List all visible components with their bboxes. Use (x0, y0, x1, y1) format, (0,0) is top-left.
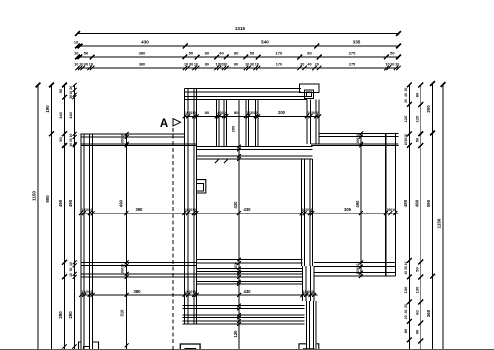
right dimension column 200/590/360 (426, 81, 435, 350)
svg-text:20: 20 (404, 88, 408, 92)
top-left exterior wall (81, 134, 197, 146)
svg-text:140: 140 (68, 111, 73, 118)
central wall below porch (197, 147, 313, 160)
svg-text:20: 20 (404, 99, 408, 103)
svg-text:10: 10 (404, 134, 408, 138)
svg-text:20: 20 (404, 315, 408, 319)
right dimension column 1150 (437, 82, 446, 350)
interior dimension row lower rooms (79, 289, 317, 297)
svg-text:10: 10 (245, 63, 249, 67)
svg-text:103010: 103010 (356, 134, 360, 145)
right dimension column 20/40/20/120/10/30/10/480/10/30/10/130/20/40/20/80 (403, 83, 412, 350)
interior dimension row upper rooms (79, 207, 399, 215)
svg-text:30: 30 (69, 138, 73, 142)
svg-text:130: 130 (403, 286, 408, 293)
svg-text:275: 275 (349, 51, 356, 56)
corridor top wall (197, 274, 303, 284)
svg-text:102010: 102010 (81, 290, 92, 294)
pier footing bottom-right (299, 344, 319, 350)
svg-text:50: 50 (414, 267, 419, 272)
svg-text:103010: 103010 (307, 111, 318, 115)
right dimension column 80/120/50/490/50/130/60/90 (414, 83, 423, 350)
svg-text:490: 490 (58, 199, 63, 207)
svg-text:20: 20 (300, 63, 304, 67)
svg-text:1030: 1030 (234, 262, 238, 270)
bottom scan edge line (0, 348, 494, 350)
pier footing bottom-middle (180, 344, 200, 350)
svg-text:280: 280 (58, 311, 63, 319)
svg-text:50: 50 (189, 51, 194, 56)
svg-text:103010: 103010 (185, 208, 196, 212)
svg-text:60: 60 (414, 310, 419, 315)
porch right wall vertical (307, 100, 319, 144)
svg-text:490: 490 (414, 199, 419, 207)
top-right exterior wall (311, 133, 399, 145)
svg-text:103010: 103010 (185, 111, 196, 115)
svg-text:1150: 1150 (32, 191, 37, 201)
svg-text:120: 120 (403, 115, 408, 122)
pier footing bottom-left (79, 342, 99, 350)
svg-text:10: 10 (74, 63, 78, 67)
left dimension column 1150 (32, 83, 41, 350)
svg-text:305: 305 (344, 207, 352, 212)
svg-text:200: 200 (231, 125, 236, 132)
svg-text:390: 390 (136, 207, 144, 212)
svg-text:10: 10 (255, 63, 259, 67)
svg-text:20: 20 (69, 86, 73, 90)
svg-text:170: 170 (276, 51, 283, 56)
svg-text:430: 430 (244, 207, 252, 212)
svg-text:30: 30 (84, 63, 88, 67)
svg-text:490: 490 (68, 199, 73, 207)
svg-text:40: 40 (404, 93, 408, 97)
svg-text:103010: 103010 (185, 290, 196, 294)
section marker A (160, 118, 181, 130)
svg-text:275: 275 (349, 63, 355, 67)
svg-text:380: 380 (134, 289, 142, 294)
svg-text:50: 50 (390, 51, 395, 56)
svg-text:380: 380 (139, 51, 146, 56)
svg-text:103010: 103010 (121, 134, 125, 145)
svg-text:335: 335 (353, 40, 361, 45)
svg-text:50: 50 (58, 137, 63, 142)
tick cluster below central wall (215, 159, 228, 163)
svg-text:200: 200 (278, 110, 286, 115)
porch pier 1 (217, 100, 227, 147)
porch chimney block (300, 84, 319, 99)
dimension row fine 10/10/30/10/380/... (74, 63, 401, 71)
svg-text:50: 50 (84, 51, 89, 56)
svg-text:104010: 104010 (303, 290, 314, 294)
corridor bottom wall band (182, 306, 304, 324)
svg-text:1315: 1315 (235, 26, 246, 31)
svg-text:102010: 102010 (216, 111, 227, 115)
svg-text:30: 30 (404, 266, 408, 270)
svg-text:80: 80 (307, 51, 312, 56)
svg-text:430: 430 (233, 201, 238, 209)
svg-text:130: 130 (414, 286, 419, 293)
svg-text:120: 120 (233, 330, 238, 338)
svg-text:490: 490 (119, 199, 124, 207)
svg-text:A: A (160, 118, 168, 130)
svg-text:80: 80 (205, 110, 210, 115)
svg-text:50: 50 (414, 137, 419, 142)
porch top wall (185, 89, 307, 100)
svg-text:30: 30 (250, 63, 254, 67)
svg-text:90: 90 (414, 329, 419, 334)
svg-text:30: 30 (390, 63, 394, 67)
svg-text:80: 80 (414, 92, 419, 97)
bottom ticks on left columns (62, 344, 76, 348)
svg-text:120: 120 (414, 115, 419, 122)
svg-text:200: 200 (426, 105, 431, 113)
interior vertical dimension right room (355, 131, 363, 278)
svg-text:430: 430 (244, 289, 252, 294)
porch pier 2 wall (246, 100, 258, 147)
svg-text:480: 480 (403, 199, 408, 207)
svg-text:80: 80 (234, 51, 239, 56)
svg-text:10: 10 (69, 262, 73, 266)
interior wall left-middle vertical (185, 89, 197, 324)
svg-text:1150: 1150 (437, 218, 442, 228)
left dimension column 50/140/50/490/50/280 (58, 83, 67, 350)
interior wall middle-right vertical (302, 159, 313, 266)
interior vertical dimension middle room (231, 100, 242, 350)
svg-text:20: 20 (315, 63, 319, 67)
svg-text:10: 10 (74, 41, 78, 45)
svg-text:170: 170 (276, 63, 282, 67)
svg-text:10: 10 (69, 273, 73, 277)
svg-text:380: 380 (139, 63, 145, 67)
svg-text:103010: 103010 (385, 208, 396, 212)
svg-text:10: 10 (89, 63, 93, 67)
dimension row 430/540/335 (74, 40, 401, 49)
svg-text:20: 20 (404, 304, 408, 308)
svg-text:80: 80 (403, 328, 408, 333)
svg-text:103010: 103010 (121, 264, 125, 275)
svg-text:280: 280 (68, 311, 73, 319)
svg-text:10: 10 (69, 143, 73, 147)
svg-text:30: 30 (404, 138, 408, 142)
svg-text:430: 430 (141, 40, 149, 45)
svg-text:40: 40 (307, 63, 311, 67)
svg-text:490: 490 (355, 200, 360, 208)
svg-text:80: 80 (205, 63, 209, 67)
svg-text:950: 950 (45, 195, 50, 203)
right room bottom wall (314, 262, 395, 276)
svg-text:80: 80 (205, 51, 210, 56)
dimension row total 1315 (75, 26, 401, 36)
svg-text:10: 10 (184, 63, 188, 67)
dimension row 10/50/380/50/80/40/80/50/170/80/275/50 (74, 51, 401, 60)
svg-text:30: 30 (69, 268, 73, 272)
left dimension column fine 20/10/20/140/10/30/10/490/10/30/10/280 (68, 83, 77, 350)
svg-text:50: 50 (58, 88, 63, 93)
svg-text:40: 40 (219, 51, 224, 56)
left exterior wall (81, 134, 93, 350)
svg-text:10: 10 (404, 262, 408, 266)
svg-text:10: 10 (404, 142, 408, 146)
svg-text:10: 10 (404, 271, 408, 275)
svg-text:20: 20 (69, 95, 73, 99)
svg-text:10: 10 (69, 134, 73, 138)
svg-text:10: 10 (385, 63, 389, 67)
stair wall vertical to bottom (307, 301, 317, 350)
porch interior dimension row (183, 110, 322, 118)
svg-text:10: 10 (69, 91, 73, 95)
svg-text:10: 10 (74, 51, 79, 56)
svg-text:80: 80 (234, 110, 239, 115)
svg-text:190: 190 (45, 105, 50, 113)
svg-text:50: 50 (250, 51, 255, 56)
svg-text:10: 10 (79, 63, 83, 67)
svg-text:10: 10 (223, 63, 227, 67)
svg-text:360: 360 (426, 309, 431, 317)
interior wall jog vertical lower (302, 266, 314, 301)
svg-text:10: 10 (395, 63, 399, 67)
svg-text:30: 30 (189, 63, 193, 67)
svg-text:102010: 102010 (301, 208, 312, 212)
section line A-A dashed (172, 128, 174, 350)
left dimension column 190/950 (45, 83, 54, 350)
svg-text:103010: 103010 (356, 263, 360, 274)
svg-text:590: 590 (426, 199, 431, 207)
svg-text:310: 310 (120, 309, 125, 317)
pilaster on wall B (197, 180, 206, 193)
svg-text:40: 40 (404, 310, 408, 314)
svg-text:540: 540 (261, 40, 269, 45)
svg-text:103010: 103010 (81, 208, 92, 212)
interior wall left horizontal (81, 262, 197, 277)
svg-text:80: 80 (234, 63, 238, 67)
svg-text:140: 140 (58, 111, 63, 118)
svg-text:103010: 103010 (246, 111, 257, 115)
right exterior wall (386, 133, 396, 276)
middle room bottom wall (197, 259, 303, 271)
interior vertical dimension left room (119, 132, 129, 350)
svg-text:10: 10 (194, 63, 198, 67)
